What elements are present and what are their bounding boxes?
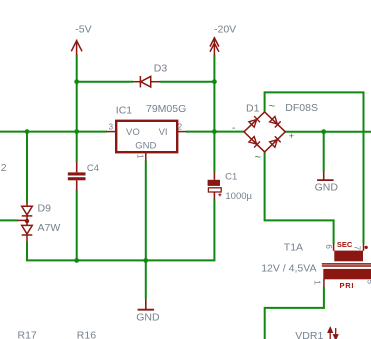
svg-text:D3: D3 [154,62,168,74]
transformer T1A secondary winding [334,251,363,262]
transformer pin 7 dot [365,246,368,249]
junction -5V column / mid bus [74,129,79,134]
junction -20V / D3 [212,79,217,84]
svg-text:PRI: PRI [340,281,355,290]
svg-text:T1A: T1A [284,241,303,253]
D9 center tap stub [18,219,27,221]
IC1 pin 3 stub [107,131,117,133]
wire D9 tap [0,219,18,221]
ground mid symbol [145,299,147,309]
svg-text:12V / 4,5VA: 12V / 4,5VA [261,263,316,275]
svg-text:SEC: SEC [337,240,353,249]
bridge diode bottom-right [269,136,280,147]
svg-text:-: - [232,123,235,134]
svg-text:VDR1: VDR1 [295,330,323,339]
diode A7W [22,221,33,242]
svg-text:3: 3 [109,123,114,132]
bridge diode left-top [249,116,260,127]
svg-text:C4: C4 [87,163,99,174]
bridge diode left-bottom [249,136,260,147]
junction D9 column / mid bus [25,129,30,134]
svg-text:VI: VI [159,127,168,138]
svg-text:IC1: IC1 [116,104,133,116]
junction output / gnd [321,129,326,134]
svg-text:GND: GND [315,182,339,194]
transformer T1A primary winding [323,269,371,279]
diode D9 [22,202,33,220]
C1 plus mark [218,193,221,196]
junction IC gnd / bottom bus [143,258,148,263]
svg-text:D9: D9 [38,203,52,215]
bridge diode top-right [269,116,280,127]
capacitor C4 [68,172,86,180]
svg-text:VO: VO [126,127,140,138]
diode D3 [133,76,160,87]
svg-text:1: 1 [136,154,145,159]
wire right gnd column [323,132,325,172]
IC1 pin 1 stub [145,152,147,161]
svg-text:~: ~ [269,100,275,112]
svg-text:79M05G: 79M05G [146,103,186,115]
junction C4 / bottom bus [74,258,79,263]
wire mid bus VI to bridge [186,131,245,133]
svg-text:D1: D1 [246,103,260,115]
op-amp U1 regulator IC1 box [116,121,177,152]
wire -5V column [76,55,78,162]
svg-text:-5V: -5V [75,23,91,35]
svg-text:2: 2 [178,123,183,132]
svg-text:5: 5 [366,280,371,285]
junction D9/A7W dot [25,219,29,223]
svg-text:2: 2 [1,162,7,174]
transformer SEC pin 7 stub [363,243,365,251]
wire IC gnd column [145,161,147,300]
svg-text:R16: R16 [77,330,96,339]
wire PRI pin 1 to VDR [265,287,324,339]
capacitor C1 [208,180,220,186]
svg-text:C1: C1 [225,172,237,183]
svg-text:GND: GND [135,140,156,151]
svg-text:~: ~ [255,151,261,163]
wire D3 row [77,81,133,83]
wire mid bus left [0,131,107,133]
wire bridge bottom to SEC pin 6 [265,152,334,244]
IC1 pin 2 stub [177,131,186,133]
wire mid bus output [285,131,371,133]
svg-text:1000µ: 1000µ [225,191,252,202]
svg-text:-20V: -20V [214,23,236,35]
wire D9 column [26,132,28,203]
transformer PRI pin 1 stub [323,279,325,287]
bridge rectifier D1 diamond [244,112,285,152]
wire -20V column [213,55,215,173]
transformer SEC pin 6 stub [333,243,335,251]
svg-text:A7W: A7W [38,222,61,234]
supply arrow -5V [71,40,82,56]
wire top bus [265,92,364,243]
transformer core [322,263,371,265]
svg-text:R17: R17 [18,330,37,339]
wire bottom bus [27,199,214,260]
varistor VDR1 arrows [328,328,338,339]
svg-text:DF08S: DF08S [285,102,318,114]
ground right symbol [323,171,325,179]
svg-text:6: 6 [324,244,333,249]
junction -5V / D3 [74,79,79,84]
junction VI / -20V column [212,129,217,134]
svg-text:1: 1 [313,280,322,285]
svg-text:GND: GND [136,311,160,323]
supply arrow -20V [210,37,219,55]
svg-text:+: + [289,131,294,141]
svg-text:7: 7 [353,246,362,251]
wire C4 bottom [76,190,78,260]
